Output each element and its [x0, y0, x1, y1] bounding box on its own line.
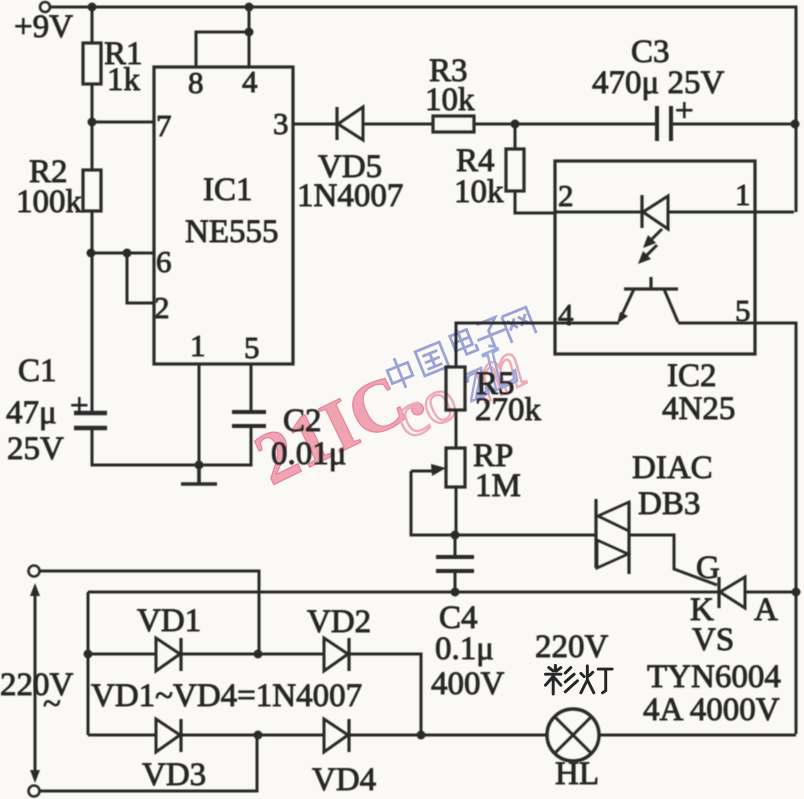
- svg-text:IC2: IC2: [667, 358, 717, 394]
- resistor R4: [506, 149, 524, 191]
- RP wiper arrow: [411, 470, 434, 473]
- svg-text:4A 4000V: 4A 4000V: [643, 692, 780, 728]
- op-to IC2 box 4N25: [555, 161, 755, 354]
- svg-text:NE555: NE555: [185, 214, 279, 250]
- wire C4 bottom lead: [454, 573, 457, 592]
- svg-text:DIAC: DIAC: [632, 450, 713, 486]
- watermark blue 中国电子网: [384, 307, 536, 392]
- wire R4 top lead: [514, 124, 517, 149]
- svg-text:VD1: VD1: [137, 603, 201, 639]
- DIAC DB3: [594, 499, 597, 568]
- resistor R1: [83, 43, 101, 84]
- svg-text:0.1μ: 0.1μ: [435, 631, 494, 667]
- phototransistor collector: [664, 289, 678, 322]
- node pin2 jumper: [123, 249, 132, 258]
- wire AC bottom: [40, 735, 257, 791]
- wire pin 4 to R5: [456, 323, 619, 367]
- svg-text:VD4: VD4: [312, 762, 376, 798]
- svg-text:8: 8: [188, 65, 204, 100]
- svg-text:C1: C1: [18, 353, 57, 389]
- wire R2 bottom lead: [91, 211, 94, 253]
- svg-text:220V: 220V: [0, 667, 74, 703]
- wire pin 6: [91, 252, 154, 255]
- LED inside IC2: [640, 195, 643, 228]
- svg-text:+9V: +9V: [14, 9, 73, 45]
- arrow 220V: [34, 589, 37, 777]
- svg-text:1: 1: [190, 328, 206, 363]
- svg-text:C2: C2: [283, 403, 322, 439]
- svg-text:470μ 25V: 470μ 25V: [592, 65, 724, 101]
- wire C2 bottom lead: [199, 428, 251, 465]
- svg-text:1N4007: 1N4007: [297, 178, 403, 214]
- diode VD1: [156, 638, 180, 671]
- wire pin 2 jumper: [127, 253, 154, 303]
- wire to C1: [91, 253, 94, 411]
- terminal AC top: [29, 566, 40, 577]
- wire LED to pin 1 and right rail: [668, 211, 794, 214]
- node pin8 jumper: [245, 28, 254, 37]
- svg-text:0.01μ: 0.01μ: [271, 436, 346, 472]
- svg-text:IC1: IC1: [203, 172, 253, 208]
- wire pin 3: [293, 123, 337, 126]
- diode VD4: [324, 719, 348, 752]
- svg-text:2: 2: [558, 178, 574, 213]
- wire pin 7: [92, 121, 154, 124]
- node R3-R4-C3: [511, 120, 520, 129]
- capacitor C3: [657, 106, 671, 141]
- svg-text:1M: 1M: [475, 468, 521, 504]
- WATERMARK: [243, 307, 537, 501]
- wire pin 5 to right rail: [678, 323, 796, 734]
- svg-text:VD2: VD2: [307, 604, 371, 640]
- svg-text:+: +: [70, 388, 89, 424]
- wire R3 to node: [474, 123, 515, 126]
- wire pin 8 jumper: [196, 32, 249, 67]
- diode VD2: [324, 638, 348, 671]
- svg-text:47μ: 47μ: [6, 395, 57, 431]
- wire R1 bottom lead: [91, 84, 94, 122]
- svg-text:3: 3: [273, 106, 289, 141]
- svg-text:4N25: 4N25: [662, 391, 735, 427]
- node RP-C4-DIAC: [451, 531, 460, 540]
- svg-text:VD3: VD3: [142, 757, 206, 793]
- ground: [181, 465, 217, 484]
- node VD4 bottom rail: [417, 731, 426, 740]
- wire AC top: [40, 571, 259, 654]
- svg-text:10k: 10k: [454, 174, 504, 210]
- capacitor C1: [74, 413, 107, 428]
- svg-text:TYN6004: TYN6004: [647, 659, 781, 695]
- node C3 right rail: [791, 120, 800, 129]
- LED light arrow 2: [643, 245, 657, 259]
- svg-text:7: 7: [156, 108, 172, 143]
- svg-text:4: 4: [242, 64, 258, 99]
- svg-text:270k: 270k: [475, 392, 542, 428]
- phototransistor base: [624, 277, 678, 289]
- svg-text:HL: HL: [555, 756, 599, 792]
- wire pin 2 to LED: [555, 211, 642, 214]
- resistor R2: [83, 170, 101, 211]
- svg-text:DB3: DB3: [638, 486, 700, 522]
- wire C4 top lead: [454, 535, 457, 555]
- terminal AC bottom: [29, 786, 40, 797]
- svg-text:1k: 1k: [107, 62, 141, 98]
- wire R2 top lead: [91, 122, 94, 170]
- wire C3 to right rail: [672, 123, 796, 126]
- node bridge left VD1: [84, 650, 93, 659]
- svg-text:VD1~VD4=1N4007: VD1~VD4=1N4007: [91, 678, 362, 714]
- node VD3-VD4: [254, 731, 263, 740]
- phototransistor emitter with arrow: [620, 289, 634, 319]
- svg-text:G: G: [696, 550, 720, 586]
- resistor R3: [433, 116, 474, 132]
- svg-text:4: 4: [558, 297, 574, 332]
- capacitor C4: [436, 557, 474, 571]
- svg-text:100k: 100k: [16, 184, 83, 220]
- node top-rail R1 junction: [88, 3, 97, 12]
- diode VD3: [156, 719, 180, 752]
- svg-text:400V: 400V: [431, 666, 505, 702]
- svg-text:6: 6: [156, 244, 172, 279]
- svg-text:VS: VS: [692, 622, 734, 658]
- svg-text:220V: 220V: [535, 629, 609, 665]
- wire VD5 to R3: [363, 123, 433, 126]
- wire bridge left vertical: [87, 592, 90, 735]
- wire R1 top lead: [91, 7, 94, 43]
- node top-rail pin4 junction: [245, 3, 254, 12]
- wire bottom rail to lamp: [349, 734, 547, 737]
- svg-text:5: 5: [244, 330, 260, 365]
- terminal +9V: [40, 2, 50, 12]
- wire DIAC to gate: [629, 535, 717, 585]
- diode VD5: [335, 107, 338, 140]
- wire pin 5: [250, 364, 253, 410]
- wire node to DIAC: [455, 534, 596, 537]
- wire pin4 from top rail: [248, 7, 251, 67]
- wire RP bottom lead: [455, 487, 458, 535]
- node ground junction: [195, 461, 204, 470]
- thyristor VS: [717, 577, 720, 608]
- node C4 main rail: [451, 588, 460, 597]
- wire RP wiper loop: [411, 471, 455, 535]
- capacitor C2: [232, 412, 266, 426]
- wire R4 to pin 2 of IC2: [515, 191, 555, 213]
- wire pin 1: [198, 364, 201, 465]
- wire C1 bottom lead: [92, 430, 199, 465]
- wire lamp to right rail: [599, 734, 796, 737]
- svg-text:1: 1: [735, 177, 751, 212]
- svg-text:25V: 25V: [7, 431, 64, 467]
- svg-text:5: 5: [735, 293, 751, 328]
- wire VD2 to bottom rail: [349, 654, 421, 735]
- resistor R5: [446, 367, 465, 410]
- node R2-pin6: [87, 249, 96, 258]
- LED light arrow 1: [648, 229, 662, 243]
- svg-text:2: 2: [154, 290, 170, 325]
- node right rail main: [792, 588, 801, 597]
- wire VD3 row: [88, 734, 324, 737]
- wire VD1 row: [88, 653, 324, 656]
- wire node to C3: [515, 123, 656, 126]
- lamp HL: [547, 709, 599, 761]
- label 彩灯 lamp chinese: [546, 665, 613, 694]
- wire top rail: [50, 7, 796, 212]
- svg-text:10k: 10k: [425, 82, 475, 118]
- svg-text:A: A: [754, 592, 778, 628]
- wire main rail: [88, 591, 796, 594]
- svg-text:+: +: [675, 93, 694, 129]
- node R1-R2-pin7: [88, 118, 97, 127]
- node VD1-VD2: [254, 650, 263, 659]
- wire R5 to RP: [455, 410, 458, 448]
- potentiometer RP: [446, 448, 465, 487]
- svg-text:~: ~: [43, 686, 61, 722]
- IC1 NE555 box: [154, 67, 293, 364]
